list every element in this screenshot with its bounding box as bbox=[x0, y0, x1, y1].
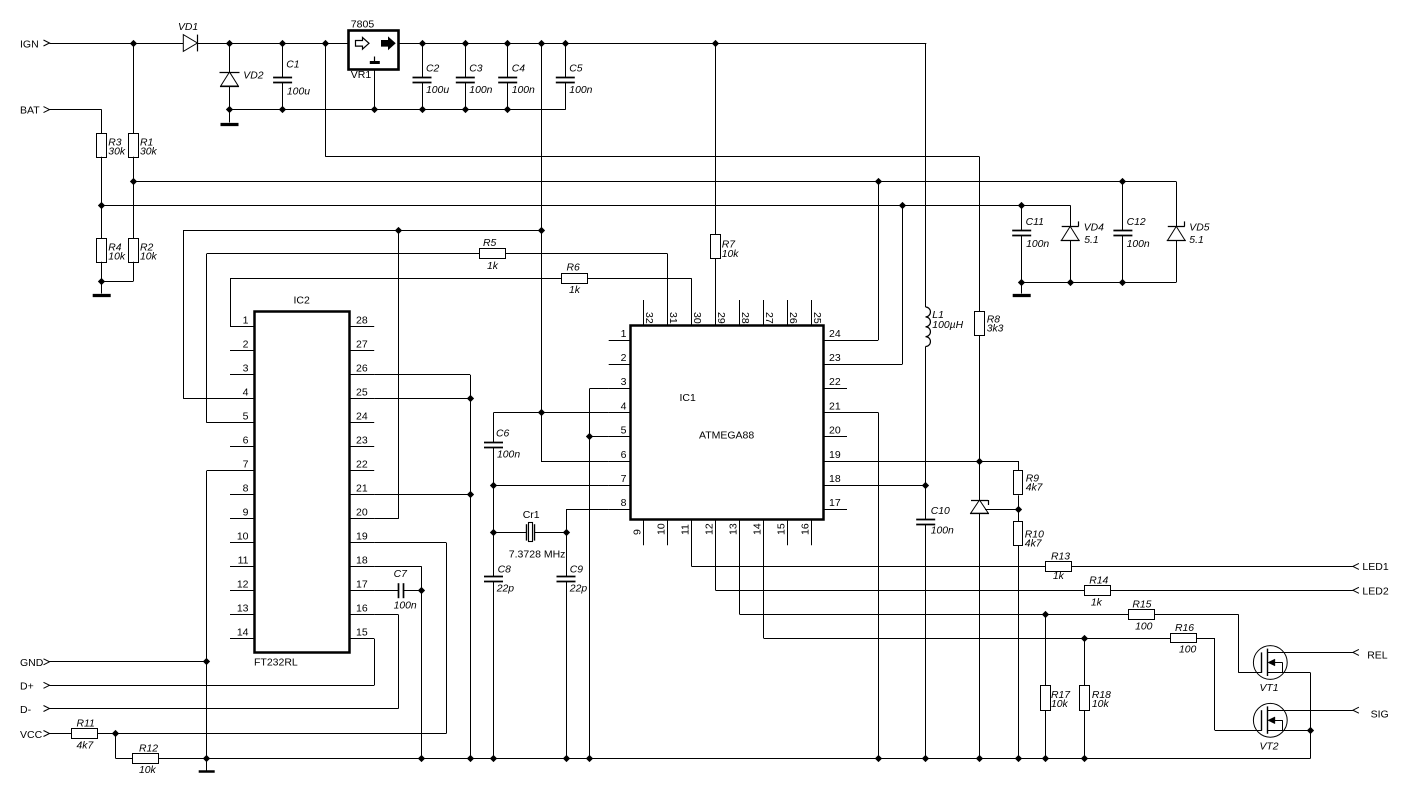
svg-text:IC1: IC1 bbox=[680, 392, 697, 404]
svg-text:20: 20 bbox=[356, 507, 368, 519]
svg-text:4: 4 bbox=[243, 387, 249, 399]
svg-text:100n: 100n bbox=[497, 449, 520, 460]
svg-text:7: 7 bbox=[621, 473, 627, 485]
svg-text:16: 16 bbox=[356, 603, 368, 615]
svg-text:R5: R5 bbox=[483, 238, 497, 249]
svg-text:100n: 100n bbox=[569, 85, 592, 96]
svg-text:30k: 30k bbox=[140, 147, 158, 158]
svg-text:6: 6 bbox=[243, 435, 249, 447]
svg-text:100n: 100n bbox=[1127, 239, 1150, 250]
svg-text:R15: R15 bbox=[1132, 600, 1151, 611]
svg-text:4k7: 4k7 bbox=[1026, 483, 1044, 494]
svg-text:7805: 7805 bbox=[351, 19, 375, 31]
svg-text:24: 24 bbox=[829, 328, 841, 340]
svg-text:LED1: LED1 bbox=[1362, 561, 1388, 573]
svg-text:9: 9 bbox=[243, 507, 249, 519]
svg-text:18: 18 bbox=[829, 473, 841, 485]
svg-text:22p: 22p bbox=[569, 584, 588, 595]
svg-text:3: 3 bbox=[621, 376, 627, 388]
svg-text:5.1: 5.1 bbox=[1084, 235, 1098, 246]
svg-text:17: 17 bbox=[829, 497, 841, 509]
svg-text:14: 14 bbox=[237, 627, 249, 639]
svg-text:IGN: IGN bbox=[20, 38, 39, 50]
svg-text:19: 19 bbox=[356, 531, 368, 543]
svg-text:6: 6 bbox=[621, 449, 627, 461]
svg-text:R11: R11 bbox=[77, 718, 95, 729]
svg-text:10k: 10k bbox=[1051, 699, 1069, 710]
svg-text:100: 100 bbox=[1179, 645, 1197, 656]
svg-text:4: 4 bbox=[621, 400, 627, 412]
svg-text:17: 17 bbox=[356, 579, 368, 591]
svg-text:VCC: VCC bbox=[20, 729, 43, 741]
svg-text:10: 10 bbox=[655, 523, 667, 535]
svg-text:1: 1 bbox=[621, 328, 627, 340]
svg-text:12: 12 bbox=[703, 523, 715, 535]
svg-text:C9: C9 bbox=[570, 564, 584, 575]
svg-text:C5: C5 bbox=[569, 63, 583, 74]
svg-text:26: 26 bbox=[356, 363, 368, 375]
svg-text:5: 5 bbox=[243, 411, 249, 423]
svg-text:D+: D+ bbox=[20, 681, 34, 693]
svg-text:VD5: VD5 bbox=[1189, 223, 1209, 234]
svg-text:C7: C7 bbox=[394, 569, 409, 580]
svg-text:C1: C1 bbox=[286, 60, 299, 71]
svg-text:24: 24 bbox=[356, 411, 368, 423]
svg-text:31: 31 bbox=[667, 312, 679, 324]
svg-text:20: 20 bbox=[829, 425, 841, 437]
svg-text:14: 14 bbox=[751, 523, 763, 535]
svg-text:1k: 1k bbox=[487, 261, 499, 272]
svg-text:10k: 10k bbox=[139, 765, 157, 776]
svg-text:100n: 100n bbox=[931, 526, 954, 537]
svg-text:VT1: VT1 bbox=[1260, 683, 1279, 694]
svg-text:8: 8 bbox=[243, 483, 249, 495]
svg-text:100n: 100n bbox=[512, 85, 535, 96]
svg-text:C11: C11 bbox=[1026, 217, 1044, 228]
svg-text:23: 23 bbox=[829, 352, 841, 364]
svg-text:27: 27 bbox=[763, 312, 775, 324]
svg-text:10: 10 bbox=[237, 531, 249, 543]
svg-text:C10: C10 bbox=[931, 506, 950, 517]
svg-text:VR1: VR1 bbox=[351, 69, 372, 81]
svg-text:SIG: SIG bbox=[1371, 708, 1389, 720]
svg-text:25: 25 bbox=[811, 312, 823, 324]
svg-text:18: 18 bbox=[356, 555, 368, 567]
svg-text:C12: C12 bbox=[1127, 217, 1146, 228]
svg-text:9: 9 bbox=[631, 529, 643, 535]
svg-text:19: 19 bbox=[829, 449, 841, 461]
svg-text:11: 11 bbox=[679, 524, 691, 535]
svg-text:ATMEGA88: ATMEGA88 bbox=[699, 430, 754, 442]
svg-text:30k: 30k bbox=[108, 147, 126, 158]
svg-text:26: 26 bbox=[787, 312, 799, 324]
svg-text:15: 15 bbox=[356, 627, 368, 639]
svg-text:32: 32 bbox=[643, 312, 655, 324]
svg-text:25: 25 bbox=[356, 387, 368, 399]
svg-text:GND: GND bbox=[20, 657, 44, 669]
svg-text:C4: C4 bbox=[512, 63, 526, 74]
svg-text:4k7: 4k7 bbox=[77, 741, 95, 752]
svg-text:R14: R14 bbox=[1089, 576, 1108, 587]
svg-text:FT232RL: FT232RL bbox=[254, 657, 298, 669]
svg-text:2: 2 bbox=[243, 339, 249, 351]
svg-text:28: 28 bbox=[739, 312, 751, 324]
svg-text:1k: 1k bbox=[1091, 597, 1103, 608]
svg-text:C2: C2 bbox=[426, 63, 440, 74]
svg-text:D-: D- bbox=[20, 704, 32, 716]
svg-text:27: 27 bbox=[356, 339, 368, 351]
svg-text:1k: 1k bbox=[1053, 571, 1065, 582]
svg-text:10k: 10k bbox=[140, 252, 158, 263]
svg-text:11: 11 bbox=[238, 555, 249, 567]
svg-text:5: 5 bbox=[621, 425, 627, 437]
svg-text:22p: 22p bbox=[496, 584, 515, 595]
svg-text:15: 15 bbox=[775, 523, 787, 535]
svg-text:28: 28 bbox=[356, 315, 368, 327]
svg-text:7.3728 MHz: 7.3728 MHz bbox=[509, 549, 566, 561]
svg-text:2: 2 bbox=[621, 352, 627, 364]
svg-text:1: 1 bbox=[243, 315, 249, 327]
svg-text:VT2: VT2 bbox=[1260, 742, 1279, 753]
svg-text:C8: C8 bbox=[498, 564, 512, 575]
svg-text:R13: R13 bbox=[1051, 551, 1070, 562]
svg-text:21: 21 bbox=[829, 400, 841, 412]
svg-text:10k: 10k bbox=[1092, 699, 1110, 710]
svg-text:R12: R12 bbox=[139, 744, 158, 755]
svg-text:3k3: 3k3 bbox=[987, 324, 1004, 335]
svg-text:IC2: IC2 bbox=[293, 295, 310, 307]
svg-text:REL: REL bbox=[1367, 649, 1388, 661]
svg-text:100n: 100n bbox=[1026, 239, 1049, 250]
svg-text:30: 30 bbox=[691, 312, 703, 324]
svg-text:16: 16 bbox=[799, 523, 811, 535]
svg-text:C6: C6 bbox=[496, 428, 510, 439]
svg-text:BAT: BAT bbox=[20, 105, 40, 117]
svg-text:100: 100 bbox=[1135, 621, 1153, 632]
svg-text:VD4: VD4 bbox=[1084, 223, 1104, 234]
svg-text:100u: 100u bbox=[287, 87, 310, 98]
svg-text:Cr1: Cr1 bbox=[523, 509, 540, 521]
svg-text:VD1: VD1 bbox=[178, 22, 198, 33]
svg-text:5.1: 5.1 bbox=[1189, 235, 1203, 246]
svg-text:21: 21 bbox=[356, 483, 368, 495]
svg-text:100µH: 100µH bbox=[932, 320, 963, 331]
svg-text:R6: R6 bbox=[567, 263, 581, 274]
svg-text:4k7: 4k7 bbox=[1025, 539, 1043, 550]
svg-text:10k: 10k bbox=[108, 252, 126, 263]
svg-text:R16: R16 bbox=[1175, 623, 1194, 634]
svg-text:100n: 100n bbox=[469, 85, 492, 96]
svg-text:3: 3 bbox=[243, 363, 249, 375]
svg-text:100n: 100n bbox=[394, 601, 417, 612]
svg-text:12: 12 bbox=[237, 579, 249, 591]
svg-text:29: 29 bbox=[715, 312, 727, 324]
svg-text:7: 7 bbox=[243, 459, 249, 471]
svg-text:23: 23 bbox=[356, 435, 368, 447]
svg-text:VD2: VD2 bbox=[243, 70, 263, 81]
svg-text:13: 13 bbox=[727, 523, 739, 535]
svg-text:LED2: LED2 bbox=[1362, 586, 1388, 598]
svg-text:10k: 10k bbox=[722, 249, 740, 260]
svg-text:22: 22 bbox=[356, 459, 368, 471]
svg-text:22: 22 bbox=[829, 376, 841, 388]
svg-text:8: 8 bbox=[621, 497, 627, 509]
svg-text:100u: 100u bbox=[426, 85, 449, 96]
svg-text:C3: C3 bbox=[469, 63, 483, 74]
svg-text:1k: 1k bbox=[569, 285, 581, 296]
svg-text:13: 13 bbox=[237, 603, 249, 615]
